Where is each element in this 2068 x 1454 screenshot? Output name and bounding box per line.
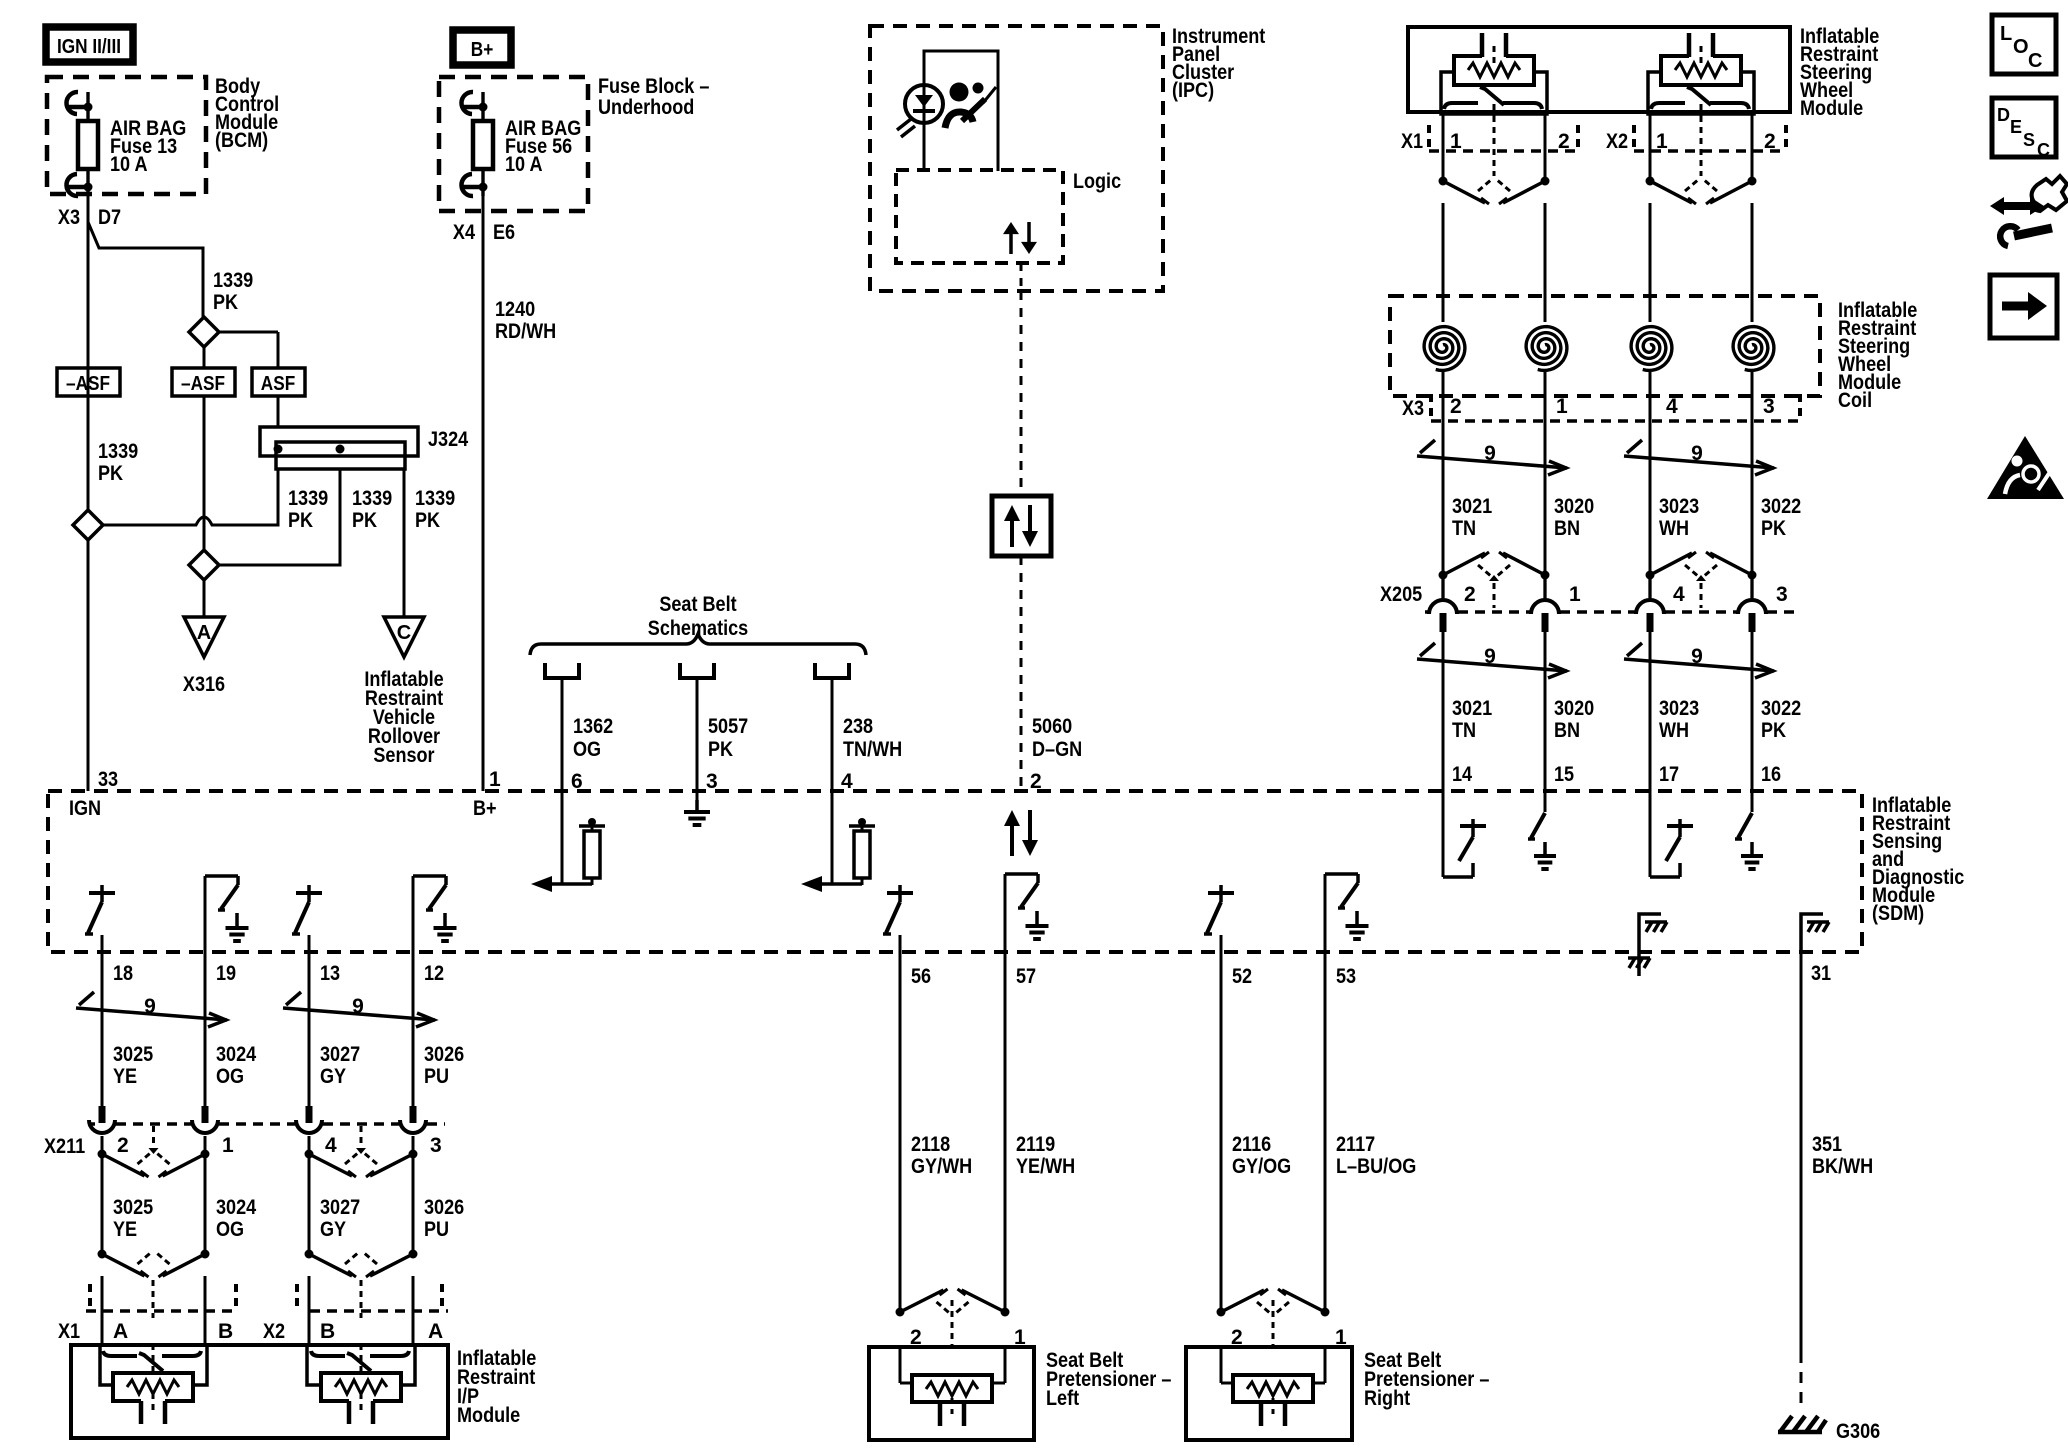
connector cup at 1545,612 [1531,600,1559,614]
SDM switch-to-ground at x=413 [412,876,415,952]
SDM driver switch at x=1221 [1208,891,1234,895]
svg-text:C: C [397,622,411,644]
svg-text:X211: X211 [44,1135,85,1158]
connector cup at 309,1124 [296,1120,322,1133]
icon DESC [1992,98,2056,157]
twisted pair 1443-1545 [1417,659,1567,671]
coil spiral at 1650 [1631,327,1672,371]
seat-belt connector at 562 [545,663,579,678]
svg-text:Module: Module [457,1404,520,1427]
svg-text:10 A: 10 A [110,153,148,176]
SDM switch-to-ground at x=205 [204,876,207,952]
svg-text:BN: BN [1554,517,1580,540]
connector cup at 1443,612 [1429,600,1457,614]
svg-text:G306: G306 [1836,1420,1880,1443]
svg-text:L–BU/OG: L–BU/OG [1336,1155,1416,1178]
SDM ground (top row) at x=1545 [1544,791,1547,812]
svg-text:1: 1 [489,768,501,791]
airbag warning person icon [950,83,969,102]
arrow [531,876,552,892]
svg-text:3027: 3027 [320,1043,360,1066]
icon airbag warning triangle [1987,436,2064,499]
svg-text:238: 238 [843,715,873,738]
svg-text:WH: WH [1659,517,1689,540]
svg-text:13: 13 [320,962,340,985]
seat-belt connector at 697 [680,663,714,678]
connector -ASF 1 [57,368,120,396]
svg-text:2: 2 [117,1134,129,1157]
svg-text:2119: 2119 [1016,1133,1055,1156]
terminal pair 1650-1752 down [1646,177,1655,186]
svg-text:RD/WH: RD/WH [495,320,556,343]
svg-text:X3: X3 [58,206,80,229]
SDM internal case ground [1639,914,1661,976]
svg-text:15: 15 [1554,763,1574,786]
wire B+ 1240 RD/WH [482,185,485,791]
fuse F13 clip top [66,92,78,114]
svg-text:PK: PK [98,462,123,485]
svg-text:A: A [113,1320,128,1343]
svg-text:Sensor: Sensor [373,744,434,767]
wire stubs to X205 cups [1441,575,1444,601]
svg-text:ASF: ASF [261,373,295,395]
squib (pretensioner) at 952 [912,1375,992,1402]
wire S3 to J324 output with hop [103,469,278,525]
svg-text:9: 9 [352,995,364,1018]
svg-text:X4: X4 [453,221,475,244]
svg-text:1339: 1339 [352,487,392,510]
svg-text:3024: 3024 [216,1196,256,1219]
wire 1362 OG [561,678,564,884]
terminal pair 102-205 down [98,1250,107,1259]
wire 5060 dashed inside IPC [1020,263,1023,291]
svg-text:PK: PK [288,509,313,532]
seat-belt resistor at 592 [588,818,596,826]
SDM driver switch at x=309 [296,891,322,895]
svg-text:3023: 3023 [1659,697,1699,720]
connector X1/X2 row of IP module [86,1309,235,1313]
svg-text:–ASF: –ASF [181,373,225,395]
twisted pair 1650-1752 [1624,456,1774,468]
fuse F56 clip bottom [461,174,473,196]
svg-text:4: 4 [1666,395,1678,418]
svg-text:2: 2 [1558,130,1570,153]
svg-text:Right: Right [1364,1387,1410,1410]
splice diamond at 204,565 [189,550,219,580]
svg-text:Fuse Block –: Fuse Block – [598,75,710,98]
svg-text:5057: 5057 [708,715,748,738]
power label B+ [453,30,511,65]
svg-text:GY: GY [320,1065,346,1088]
terminal pair 1650-1752 up [1646,571,1655,580]
connector cup at 413,1124 [400,1120,426,1133]
svg-text:1339: 1339 [415,487,455,510]
svg-text:2: 2 [1450,395,1462,418]
svg-text:9: 9 [1484,442,1496,465]
svg-text:(IPC): (IPC) [1172,79,1214,102]
svg-text:3022: 3022 [1761,495,1801,518]
SDM dashed box [48,791,1862,952]
svg-text:X1: X1 [1401,130,1423,153]
svg-text:3025: 3025 [113,1043,153,1066]
terminal pair 102-205 down [98,1150,107,1159]
connector cup at 1752,612 [1738,600,1766,614]
logic up/down arrows [1009,232,1013,254]
svg-text:9: 9 [1691,645,1703,668]
svg-text:GY/OG: GY/OG [1232,1155,1291,1178]
svg-text:1339: 1339 [213,269,253,292]
terminal pair 1443-1545 down [1439,177,1448,186]
wire J324 to splice S2 [219,469,340,565]
svg-text:OG: OG [216,1218,244,1241]
svg-text:1339: 1339 [288,487,328,510]
svg-text:1339: 1339 [98,440,138,463]
svg-text:PK: PK [1761,517,1786,540]
BCM dashed box [47,77,206,194]
svg-text:Left: Left [1046,1387,1079,1410]
wire splice to ASF [219,331,278,334]
wire S2 to connector A [203,580,206,617]
svg-text:BN: BN [1554,719,1580,742]
svg-text:IGN II/III: IGN II/III [57,36,121,58]
svg-text:B+: B+ [473,797,497,820]
svg-text:14: 14 [1452,763,1472,786]
twisted pair 1443-1545 [1417,456,1567,468]
connector cup at 102,1124 [89,1120,115,1133]
svg-text:Logic: Logic [1073,170,1121,193]
SDM ground (top row) at x=1752 [1751,791,1754,812]
coil spiral at 1443 [1424,327,1465,371]
svg-text:B: B [218,1320,233,1343]
IP module box [71,1345,448,1438]
icon LOC [1992,15,2056,74]
svg-text:1: 1 [222,1134,234,1157]
IPC dashed box [870,26,1163,291]
svg-text:PU: PU [424,1218,449,1241]
wire J324 to rollover sensor [403,469,406,617]
coil spiral at 1752 [1733,327,1774,371]
connector triangle C [384,617,424,657]
splice diamond at 204,332 [189,317,219,347]
wire ASF down to J324 [277,396,280,427]
svg-text:GY: GY [320,1218,346,1241]
svg-text:GY/WH: GY/WH [911,1155,972,1178]
brace [530,634,866,655]
seat belt pretensioner right box [1186,1347,1352,1440]
svg-text:X1: X1 [58,1320,80,1343]
svg-text:3020: 3020 [1554,697,1594,720]
twisted pair 309-413 [283,1008,435,1020]
seat belt pretensioner left box [869,1347,1034,1440]
svg-text:Underhood: Underhood [598,96,694,119]
terminal pair 1443-1545 up [1439,571,1448,580]
svg-text:OG: OG [216,1065,244,1088]
svg-text:5060: 5060 [1032,715,1072,738]
svg-text:3024: 3024 [216,1043,256,1066]
svg-text:3022: 3022 [1761,697,1801,720]
svg-text:TN/WH: TN/WH [843,738,902,761]
svg-text:Seat Belt: Seat Belt [659,593,736,616]
squib (steering wheel) at 1701 [1648,72,1754,114]
terminal pair 309-413 down [305,1150,314,1159]
svg-text:3023: 3023 [1659,495,1699,518]
wires into IP module [101,1276,104,1345]
squib (steering wheel) at 1494 [1441,72,1547,114]
svg-text:PK: PK [708,738,733,761]
fuse F13 clip bottom [66,174,78,196]
svg-text:IGN: IGN [69,797,101,820]
SDM switch-to-ground at x=1005 [1004,874,1007,952]
steering wheel module box [1408,27,1790,112]
svg-text:2: 2 [1764,130,1776,153]
wire 5060 dashed to SDM [1020,556,1023,791]
svg-text:52: 52 [1232,965,1252,988]
svg-text:1: 1 [1556,395,1568,418]
svg-text:J324: J324 [428,428,468,451]
svg-text:17: 17 [1659,763,1679,786]
svg-text:3: 3 [1763,395,1775,418]
arrow [801,876,822,892]
SDM driver switch at x=900 [887,891,913,895]
svg-text:(BCM): (BCM) [215,129,268,152]
splice diamond at 88,525 [73,510,103,540]
svg-text:PK: PK [415,509,440,532]
svg-text:1: 1 [1569,583,1581,606]
wires below X211 [101,1136,104,1254]
fuse block dashed box [439,77,588,211]
svg-text:57: 57 [1016,965,1036,988]
svg-text:B+: B+ [471,39,494,61]
wires to coil [1442,203,1445,322]
svg-text:Coil: Coil [1838,389,1872,412]
svg-text:L: L [2000,23,2012,45]
squib (module) at 361 [307,1345,415,1385]
wire 238 TN/WH [831,678,834,884]
svg-text:X3: X3 [1402,397,1424,420]
squib (module) at 153 [100,1345,207,1385]
svg-text:10 A: 10 A [505,153,543,176]
serial data box [992,496,1051,556]
svg-text:X2: X2 [1606,130,1628,153]
svg-text:TN: TN [1452,517,1476,540]
logic dashed box [896,170,1063,263]
svg-text:E: E [2010,117,2022,137]
connector cup at 205,1124 [192,1120,218,1133]
svg-text:PK: PK [213,291,238,314]
svg-text:351: 351 [1812,1133,1842,1156]
terminal pair 309-413 down [305,1250,314,1259]
wire 351 BK/WH [1800,952,1803,1352]
svg-text:Module: Module [1800,97,1863,120]
connector triangle A [184,617,224,657]
wires X205 to SDM [1442,630,1445,791]
svg-text:D7: D7 [98,206,121,229]
svg-text:D: D [1997,105,2010,125]
svg-text:PK: PK [352,509,377,532]
wires squibs to X1/X2 terminals [1442,114,1445,181]
svg-text:3026: 3026 [424,1043,464,1066]
svg-text:56: 56 [911,965,931,988]
svg-text:1362: 1362 [573,715,613,738]
IPC internal circuit frame [924,51,998,171]
svg-text:(SDM): (SDM) [1872,902,1924,925]
svg-text:4: 4 [1673,583,1685,606]
svg-text:3021: 3021 [1452,495,1492,518]
svg-text:4: 4 [325,1134,337,1157]
svg-text:WH: WH [1659,719,1689,742]
svg-text:X205: X205 [1380,583,1422,606]
svg-text:2: 2 [1464,583,1476,606]
splice pack J324 [260,427,418,456]
wires to X211 [101,952,104,1106]
wire branch to splice [88,222,203,317]
airbag indicator lamp [905,85,943,123]
wire -ASF2 down to splice S2 [203,396,206,550]
svg-text:3: 3 [430,1134,442,1157]
svg-text:C: C [2037,140,2050,160]
svg-text:9: 9 [144,995,156,1018]
SDM driver switch (top row) at x=1443 [1442,791,1445,877]
svg-text:B: B [320,1320,335,1343]
svg-text:12: 12 [424,962,444,985]
coil dashed box [1390,296,1820,396]
svg-text:S: S [2023,130,2035,150]
svg-text:1240: 1240 [495,298,535,321]
svg-text:OG: OG [573,738,601,761]
svg-text:PK: PK [1761,719,1786,742]
fuse F56 body [473,121,493,169]
svg-text:A: A [428,1320,443,1343]
fuse F56 clip top [461,92,473,114]
SDM ground pin 31 hook [1801,914,1823,951]
svg-text:PU: PU [424,1065,449,1088]
svg-text:3025: 3025 [113,1196,153,1219]
wire 5057 PK [696,678,699,806]
svg-text:31: 31 [1811,962,1831,985]
svg-text:33: 33 [98,768,118,791]
icon forward arrow [1990,275,2057,338]
svg-text:1: 1 [1450,130,1462,153]
seat-belt resistor at 862 [858,818,866,826]
svg-text:2116: 2116 [1232,1133,1271,1156]
svg-text:X316: X316 [183,673,225,696]
connector cup at 1650,612 [1636,600,1664,614]
twisted pair 102-205 [76,1008,227,1020]
svg-text:2118: 2118 [911,1133,950,1156]
wires to pretensioners [899,952,902,1312]
svg-text:C: C [2028,50,2042,72]
wire 5060 D-GN dashed [1020,291,1023,496]
wires X3 to X205 [1442,421,1445,575]
svg-text:YE/WH: YE/WH [1016,1155,1075,1178]
svg-text:18: 18 [113,962,133,985]
svg-text:E6: E6 [493,221,515,244]
svg-text:16: 16 [1761,763,1781,786]
svg-text:3026: 3026 [424,1196,464,1219]
svg-text:3020: 3020 [1554,495,1594,518]
svg-text:9: 9 [1691,442,1703,465]
svg-text:53: 53 [1336,965,1356,988]
svg-text:TN: TN [1452,719,1476,742]
connector -ASF 2 [172,368,235,396]
SDM serial data arrows [1010,824,1014,856]
fuse F13 body [78,121,98,169]
svg-text:3027: 3027 [320,1196,360,1219]
svg-text:1: 1 [1656,130,1668,153]
svg-text:19: 19 [216,962,236,985]
svg-text:YE: YE [113,1218,137,1241]
connector ASF [252,368,305,396]
svg-text:9: 9 [1484,645,1496,668]
terminal pair 900-1005 up [896,1308,905,1317]
coil spiral at 1545 [1526,327,1567,371]
ground G306 [1778,1430,1822,1435]
svg-text:BK/WH: BK/WH [1812,1155,1873,1178]
squib (pretensioner) at 1273 [1233,1375,1313,1402]
seat-belt connector at 832 [815,663,849,678]
svg-text:2117: 2117 [1336,1133,1375,1156]
svg-text:A: A [197,622,211,644]
SDM driver switch (top row) at x=1650 [1649,791,1652,877]
wire IGN from fuse 13 to SDM pin 33 [87,185,90,791]
svg-text:3: 3 [1776,583,1788,606]
terminal pair 1221-1325 up [1217,1308,1226,1317]
svg-text:YE: YE [113,1065,137,1088]
svg-text:–ASF: –ASF [66,373,110,395]
SDM switch-to-ground at x=1325 [1324,874,1327,952]
icon compare/tools [2032,176,2067,211]
svg-text:3021: 3021 [1452,697,1492,720]
twisted pair 1650-1752 [1624,659,1774,671]
ground 5057 [695,800,699,812]
SDM driver switch at x=102 [89,891,115,895]
svg-text:D–GN: D–GN [1032,738,1082,761]
power label IGN II/III [46,27,133,62]
svg-text:X2: X2 [263,1320,285,1343]
svg-text:O: O [2013,36,2029,58]
